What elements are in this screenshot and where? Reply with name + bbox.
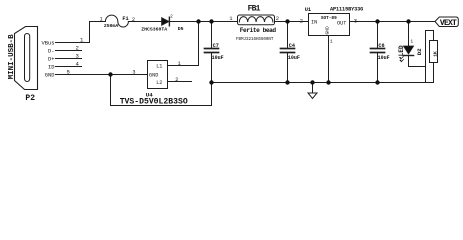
svg-text:2: 2 [132, 17, 135, 23]
svg-text:P2: P2 [25, 94, 35, 103]
svg-text:D5: D5 [178, 26, 184, 32]
svg-text:D2: D2 [416, 48, 423, 55]
svg-text:L2: L2 [156, 80, 162, 86]
svg-text:F1: F1 [122, 16, 128, 22]
wire FB1 to U1 [275, 21, 309, 23]
wire TVS pin2 stub [168, 81, 192, 83]
svg-text:1: 1 [410, 38, 413, 44]
svg-text:ID: ID [48, 64, 54, 70]
wire TVS pin1 riser [168, 22, 199, 66]
svg-text:3: 3 [354, 18, 357, 24]
junction dots [108, 19, 410, 84]
capacitor C7 column [211, 22, 213, 49]
wire U1 GND pin1 down [328, 36, 330, 83]
capacitor C6 column [377, 22, 379, 49]
wire resistor bottom [433, 63, 435, 83]
wire D- pin2 stub [56, 50, 82, 52]
svg-text:D+: D+ [48, 56, 54, 62]
svg-text:Ferite bead: Ferite bead [240, 27, 277, 34]
svg-text:GND: GND [45, 73, 55, 79]
ferrite bead FB1 arcs [239, 17, 273, 22]
svg-text:D-: D- [48, 48, 54, 54]
VEXT net tag [435, 17, 458, 27]
svg-text:2: 2 [175, 77, 178, 83]
capacitor C7 plates [205, 48, 219, 50]
svg-text:TVS-D5V0L2B3SO: TVS-D5V0L2B3SO [120, 97, 188, 106]
svg-text:1: 1 [178, 61, 181, 67]
wire GND pin5 to TVS pin3 [56, 74, 148, 76]
ground rail [212, 82, 434, 84]
svg-text:FBMJ3216HS500NT: FBMJ3216HS500NT [236, 38, 274, 42]
svg-text:C6: C6 [378, 43, 384, 49]
wire VBus pin1 [56, 22, 90, 43]
svg-text:2: 2 [300, 18, 303, 24]
svg-text:10uF: 10uF [288, 55, 300, 61]
svg-text:C7: C7 [213, 43, 219, 49]
svg-text:GND: GND [324, 26, 330, 35]
wire top rail to fuse [90, 21, 106, 23]
svg-text:10uF: 10uF [378, 55, 390, 61]
wire LED cathode jog [409, 56, 426, 67]
svg-text:2: 2 [276, 16, 279, 22]
wire D+ pin3 stub [56, 58, 82, 60]
svg-text:2: 2 [76, 44, 79, 51]
svg-text:LED: LED [398, 45, 405, 56]
wire U1 OUT to VEXT [350, 21, 436, 23]
svg-text:3: 3 [76, 52, 79, 59]
svg-text:VEXT: VEXT [440, 19, 457, 28]
TVS U4 box [148, 61, 168, 89]
ferrite bead FB1 body [238, 15, 275, 25]
LED D2 cathode bar [403, 55, 413, 57]
svg-text:C4: C4 [289, 43, 295, 49]
svg-text:OUT: OUT [337, 21, 346, 27]
svg-text:FB1: FB1 [248, 4, 261, 13]
connector P2 MINI-USB-B shell [15, 27, 38, 90]
svg-text:5: 5 [67, 69, 70, 76]
resistor R body [430, 41, 438, 63]
wire resistor feed vertical [425, 31, 427, 83]
ground symbol [312, 83, 314, 94]
svg-text:1: 1 [100, 17, 103, 23]
diode D5 ZHCS360TA [162, 18, 169, 26]
svg-text:GND: GND [149, 72, 158, 78]
connector P2 inner slot [25, 34, 30, 82]
LED D2 column [408, 22, 410, 47]
capacitor C6 plates [371, 48, 385, 50]
LED D2 triangle [403, 46, 413, 54]
svg-text:IN: IN [311, 20, 317, 26]
svg-text:1: 1 [229, 16, 232, 22]
svg-text:SOT-89: SOT-89 [321, 16, 337, 21]
capacitor C4 column [287, 22, 289, 49]
svg-text:ZHCS360TA: ZHCS360TA [141, 27, 167, 33]
svg-text:U1: U1 [305, 7, 311, 13]
wire gnd wrap around TVS [111, 75, 212, 106]
svg-text:250mA: 250mA [104, 23, 119, 29]
wire fuse to diode [128, 21, 161, 23]
svg-text:10uF: 10uF [212, 55, 224, 61]
wire diode to FB1 [169, 21, 237, 23]
svg-text:VBus: VBus [42, 40, 55, 46]
capacitor C4 plates [281, 48, 295, 50]
regulator U1 box [309, 14, 350, 36]
wire ID pin4 stub [56, 66, 82, 68]
wire resistor top loop [426, 31, 434, 41]
fuse F1 squiggle [105, 15, 128, 27]
svg-text:L1: L1 [156, 64, 162, 70]
svg-text:MINI-USB-B: MINI-USB-B [8, 34, 16, 80]
svg-text:1: 1 [330, 38, 333, 44]
LED D2 arrows [401, 57, 404, 62]
svg-text:3: 3 [132, 70, 135, 76]
svg-text:AP1115BY33G: AP1115BY33G [330, 7, 363, 13]
svg-text:1K: 1K [432, 51, 438, 57]
